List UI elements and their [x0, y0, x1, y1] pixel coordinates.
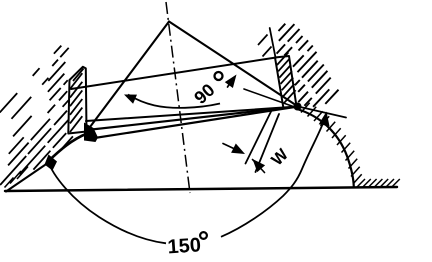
90 arc left arrowhead [124, 95, 137, 104]
90 label leader arrow [228, 81, 232, 87]
right mountain boundary above block [270, 28, 276, 58]
degree mark of 150 [200, 232, 207, 239]
left shoulder curve [48, 134, 87, 162]
W arrow left [223, 144, 238, 151]
degree mark of 90 [215, 72, 223, 80]
left mountain hatching [5, 178, 14, 188]
centerline (dash-dot) [166, 2, 190, 193]
90 deg angle arc [128, 95, 220, 108]
diagonal line into R (behind 90 label) [244, 89, 296, 108]
baseline (horizontal ground line) [5, 187, 397, 191]
right block hatching [277, 52, 288, 65]
strip edge line 2 [87, 107, 298, 131]
junction L blob [84, 123, 98, 143]
cylinder arc hatching [301, 103, 310, 113]
150 deg arc right segment [221, 114, 327, 237]
right V flank line (apex to R) [169, 22, 298, 107]
left V flank line (apex to L) [87, 22, 169, 132]
W arrow right [253, 159, 266, 172]
cylinder arc surface [297, 109, 354, 187]
top edge line across blocks [71, 58, 276, 90]
strip edge line 1 [86, 107, 298, 122]
150 deg arc left segment [48, 160, 167, 243]
left clamp block B1 outline [68, 67, 86, 134]
right clamp block B2 outline [275, 56, 297, 109]
right tangent shelf line [298, 107, 346, 118]
150 arc right arrowhead [319, 112, 330, 127]
baseline hatch ticks (right end) [357, 179, 366, 188]
strip edge line 3 [88, 107, 298, 140]
W dimension leader line 1 [246, 111, 272, 164]
left incline surface (150 deg reference) [6, 162, 50, 192]
left block hatching [70, 73, 82, 89]
right mountain hatching [258, 35, 268, 46]
W dimension leader line 2 [256, 114, 280, 172]
junction R blob [294, 103, 302, 111]
150 arc left arrowhead [45, 155, 58, 171]
svg-text:150: 150 [167, 234, 202, 258]
